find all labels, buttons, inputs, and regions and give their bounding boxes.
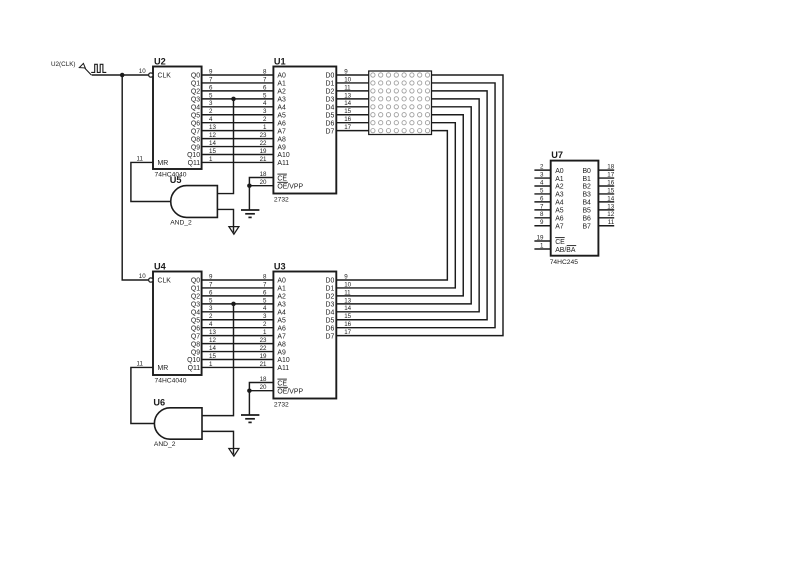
svg-text:2732: 2732 xyxy=(274,402,289,409)
wire Q3 to A3 (U2-U1) xyxy=(202,98,274,100)
wire matrix row 0 to U3 D7 xyxy=(336,75,503,336)
svg-text:13: 13 xyxy=(344,297,351,304)
svg-text:8: 8 xyxy=(263,273,267,280)
wire Q5 to A5 (U4-U3) xyxy=(202,319,274,321)
svg-text:7: 7 xyxy=(263,281,267,288)
svg-text:U6: U6 xyxy=(153,397,165,407)
wire U7 B1 stub xyxy=(598,177,614,179)
svg-text:U5: U5 xyxy=(170,175,182,185)
wire Q2 to A2 (U4-U3) xyxy=(202,295,274,297)
svg-text:B3: B3 xyxy=(582,192,591,199)
svg-text:AND_2: AND_2 xyxy=(154,441,176,448)
svg-text:Q10: Q10 xyxy=(187,152,200,159)
wire U1 D5 to matrix row 5 xyxy=(336,114,368,116)
wire Q0 to A0 (U4-U3) xyxy=(202,279,274,281)
svg-text:B7: B7 xyxy=(582,223,591,230)
svg-text:13: 13 xyxy=(209,329,216,336)
wire Q0 to A0 (U2-U1) xyxy=(202,74,274,76)
junction CLK node xyxy=(120,73,125,78)
svg-text:6: 6 xyxy=(540,195,544,202)
svg-text:4: 4 xyxy=(209,321,213,328)
EPROM U3 2732 xyxy=(273,261,336,408)
svg-text:OE/VPP: OE/VPP xyxy=(277,389,303,396)
svg-text:3: 3 xyxy=(209,100,213,107)
svg-text:9: 9 xyxy=(540,219,544,226)
wire U1 D3 to matrix row 3 xyxy=(336,98,368,100)
wire CLK net to U2 xyxy=(92,74,149,76)
svg-text:11: 11 xyxy=(608,219,615,226)
wire U1 CE pin 18 xyxy=(249,178,273,186)
svg-text:AND_2: AND_2 xyxy=(170,219,192,226)
svg-text:U1: U1 xyxy=(274,56,286,66)
wire U1 D2 to matrix row 2 xyxy=(336,90,368,92)
svg-text:A2: A2 xyxy=(277,89,286,96)
svg-text:OE/VPP: OE/VPP xyxy=(277,184,303,191)
svg-text:18: 18 xyxy=(607,164,614,171)
svg-text:2: 2 xyxy=(540,164,544,171)
svg-text:A10: A10 xyxy=(277,357,289,364)
svg-text:7: 7 xyxy=(263,76,267,83)
svg-text:CE: CE xyxy=(277,380,287,387)
wire CLK net down to U4 xyxy=(122,75,148,280)
svg-text:D2: D2 xyxy=(325,89,334,96)
svg-text:Q9: Q9 xyxy=(191,349,200,356)
svg-text:Q6: Q6 xyxy=(191,325,200,332)
svg-text:D6: D6 xyxy=(325,325,334,332)
wire U7 B0 stub xyxy=(598,169,614,171)
svg-text:Q7: Q7 xyxy=(191,333,200,340)
svg-text:16: 16 xyxy=(344,321,351,328)
svg-text:A0: A0 xyxy=(555,168,564,175)
svg-text:74HC245: 74HC245 xyxy=(550,259,579,266)
svg-text:16: 16 xyxy=(344,116,351,123)
input port U2(CLK) xyxy=(51,61,106,75)
svg-text:U2: U2 xyxy=(154,56,166,66)
wire matrix row 4 to U3 D3 xyxy=(336,107,471,304)
svg-text:Q11: Q11 xyxy=(188,160,201,167)
wire Q4 to A4 (U4-U3) xyxy=(202,311,274,313)
svg-text:10: 10 xyxy=(139,273,146,280)
svg-text:AB/BA: AB/BA xyxy=(555,247,576,254)
svg-text:13: 13 xyxy=(607,203,614,210)
ground digital U5 xyxy=(229,227,239,235)
svg-text:B5: B5 xyxy=(582,208,591,215)
svg-text:Q4: Q4 xyxy=(191,105,200,112)
svg-text:8: 8 xyxy=(540,211,544,218)
svg-text:7: 7 xyxy=(209,281,213,288)
svg-text:18: 18 xyxy=(260,171,267,178)
svg-text:5: 5 xyxy=(263,92,267,99)
wire U1 D6 to matrix row 6 xyxy=(336,122,368,124)
svg-text:4: 4 xyxy=(540,179,544,186)
svg-text:5: 5 xyxy=(209,92,213,99)
wire Q6 to A6 (U2-U1) xyxy=(202,122,274,124)
wire Q10 to A10 (U4-U3) xyxy=(202,359,274,361)
svg-text:Q6: Q6 xyxy=(191,120,200,127)
wire U7 A3 stub xyxy=(534,193,550,195)
wire Q8 to A8 (U2-U1) xyxy=(202,138,274,140)
svg-text:CLK: CLK xyxy=(158,73,172,80)
svg-text:Q7: Q7 xyxy=(191,128,200,135)
svg-text:9: 9 xyxy=(344,273,348,280)
svg-text:14: 14 xyxy=(209,345,216,352)
wire matrix row 1 to U3 D6 xyxy=(336,83,495,328)
svg-text:3: 3 xyxy=(263,108,267,115)
svg-text:2: 2 xyxy=(209,108,213,115)
svg-text:MR: MR xyxy=(158,365,169,372)
AND gate U5 AND_2 xyxy=(170,175,218,226)
svg-text:Q1: Q1 xyxy=(191,286,200,293)
svg-text:1: 1 xyxy=(209,361,213,368)
svg-text:1: 1 xyxy=(209,156,213,163)
wire matrix row 3 to U3 D4 xyxy=(336,99,479,312)
svg-text:A1: A1 xyxy=(555,176,564,183)
wire Q2 to A2 (U2-U1) xyxy=(202,90,274,92)
svg-text:CLK: CLK xyxy=(158,278,172,285)
svg-text:17: 17 xyxy=(607,171,614,178)
svg-text:A7: A7 xyxy=(277,333,286,340)
wire U7 A1 stub xyxy=(534,177,550,179)
wire U7 A2 stub xyxy=(534,185,550,187)
svg-text:Q3: Q3 xyxy=(191,302,200,309)
svg-text:A4: A4 xyxy=(555,200,564,207)
svg-text:7: 7 xyxy=(540,203,544,210)
wire matrix row 7 to U3 D0 xyxy=(336,131,447,280)
svg-text:A2: A2 xyxy=(555,184,564,191)
wire U5 input A from Q3 node xyxy=(217,99,233,194)
svg-text:A6: A6 xyxy=(277,325,286,332)
svg-text:6: 6 xyxy=(263,289,267,296)
wire U1 D4 to matrix row 4 xyxy=(336,106,368,108)
svg-text:U3: U3 xyxy=(274,261,286,271)
svg-text:A5: A5 xyxy=(277,317,286,324)
svg-text:D4: D4 xyxy=(325,105,334,112)
wire Q6 to A6 (U4-U3) xyxy=(202,327,274,329)
svg-text:15: 15 xyxy=(344,108,351,115)
svg-text:22: 22 xyxy=(260,345,267,352)
wire U7 A7 stub xyxy=(534,225,550,227)
wire Q1 to A1 (U2-U1) xyxy=(202,82,274,84)
svg-text:U7: U7 xyxy=(551,150,563,160)
svg-text:23: 23 xyxy=(260,132,267,139)
svg-text:20: 20 xyxy=(260,384,267,391)
svg-text:A4: A4 xyxy=(277,310,286,317)
svg-text:10: 10 xyxy=(344,281,351,288)
wire U6 output to MR xyxy=(131,367,155,423)
svg-text:Q10: Q10 xyxy=(187,357,200,364)
svg-text:CE: CE xyxy=(555,239,565,246)
wire U5 input B lead xyxy=(217,209,233,232)
svg-text:A7: A7 xyxy=(277,128,286,135)
svg-text:A11: A11 xyxy=(277,160,289,167)
svg-text:Q0: Q0 xyxy=(191,73,200,80)
svg-text:11: 11 xyxy=(344,84,351,91)
junction U1 OE node xyxy=(247,183,252,188)
svg-text:21: 21 xyxy=(260,361,267,368)
svg-text:1: 1 xyxy=(540,242,544,249)
svg-text:A1: A1 xyxy=(277,81,286,88)
wire Q10 to A10 (U2-U1) xyxy=(202,154,274,156)
svg-text:B1: B1 xyxy=(582,176,591,183)
wire U7 A4 stub xyxy=(534,201,550,203)
svg-text:Q8: Q8 xyxy=(191,341,200,348)
svg-text:13: 13 xyxy=(344,92,351,99)
svg-text:A8: A8 xyxy=(277,341,286,348)
svg-text:A6: A6 xyxy=(555,216,564,223)
svg-text:3: 3 xyxy=(540,171,544,178)
svg-text:15: 15 xyxy=(209,353,216,360)
svg-text:21: 21 xyxy=(260,156,267,163)
wire matrix row 2 to U3 D5 xyxy=(336,91,487,320)
wire U3 OE/VPP pin 20 xyxy=(249,390,273,392)
svg-text:5: 5 xyxy=(540,187,544,194)
svg-text:A3: A3 xyxy=(555,192,564,199)
svg-text:11: 11 xyxy=(137,156,144,163)
wire U6 input A from Q3 node xyxy=(202,304,234,416)
svg-text:10: 10 xyxy=(344,76,351,83)
svg-text:Q3: Q3 xyxy=(191,97,200,104)
svg-text:6: 6 xyxy=(209,84,213,91)
svg-text:D1: D1 xyxy=(325,286,334,293)
svg-text:23: 23 xyxy=(260,337,267,344)
svg-text:6: 6 xyxy=(209,289,213,296)
svg-text:10: 10 xyxy=(139,68,146,75)
svg-text:Q1: Q1 xyxy=(191,81,200,88)
svg-text:B0: B0 xyxy=(582,168,591,175)
svg-text:U4: U4 xyxy=(154,261,167,271)
svg-text:B2: B2 xyxy=(582,184,591,191)
svg-text:2: 2 xyxy=(209,313,213,320)
svg-text:14: 14 xyxy=(209,140,216,147)
svg-text:4: 4 xyxy=(263,305,267,312)
svg-text:D7: D7 xyxy=(325,333,334,340)
wire U1 D1 to matrix row 1 xyxy=(336,82,368,84)
svg-text:12: 12 xyxy=(607,211,614,218)
wire U7 B7 stub xyxy=(598,225,614,227)
svg-text:Q5: Q5 xyxy=(191,112,200,119)
svg-text:19: 19 xyxy=(260,148,267,155)
ground digital U6 xyxy=(229,449,239,457)
wire Q9 to A9 (U4-U3) xyxy=(202,351,274,353)
junction U3 OE node xyxy=(247,388,252,393)
buffer U7 74HC245 xyxy=(550,150,599,266)
svg-text:Q8: Q8 xyxy=(191,136,200,143)
svg-text:14: 14 xyxy=(344,100,351,107)
svg-text:B4: B4 xyxy=(582,200,591,207)
svg-text:D3: D3 xyxy=(325,97,334,104)
wire U3 ground lead xyxy=(248,391,250,415)
svg-text:9: 9 xyxy=(344,68,348,75)
svg-text:9: 9 xyxy=(209,273,213,280)
wire Q8 to A8 (U4-U3) xyxy=(202,343,274,345)
svg-text:A1: A1 xyxy=(277,286,286,293)
wire Q11 to A11 (U4-U3) xyxy=(202,366,274,368)
svg-text:15: 15 xyxy=(209,148,216,155)
wire U7 B5 stub xyxy=(598,209,614,211)
wire Q1 to A1 (U4-U3) xyxy=(202,287,274,289)
svg-text:Q11: Q11 xyxy=(188,365,201,372)
EPROM U1 2732 xyxy=(273,56,336,203)
svg-text:13: 13 xyxy=(209,124,216,131)
svg-text:2732: 2732 xyxy=(274,197,289,204)
wire U7 A5 stub xyxy=(534,209,550,211)
wire Q4 to A4 (U2-U1) xyxy=(202,106,274,108)
svg-text:A3: A3 xyxy=(277,302,286,309)
svg-text:MR: MR xyxy=(158,160,169,167)
svg-text:8: 8 xyxy=(263,68,267,75)
svg-text:A9: A9 xyxy=(277,144,286,151)
wire Q7 to A7 (U4-U3) xyxy=(202,335,274,337)
svg-text:B6: B6 xyxy=(582,216,591,223)
wire Q3 to A3 (U4-U3) xyxy=(202,303,274,305)
wire U6 input B lead xyxy=(202,431,234,454)
svg-text:5: 5 xyxy=(263,297,267,304)
wire Q7 to A7 (U2-U1) xyxy=(202,130,274,132)
svg-text:12: 12 xyxy=(209,337,216,344)
svg-text:11: 11 xyxy=(137,361,144,368)
wire Q11 to A11 (U2-U1) xyxy=(202,161,274,163)
wire U1 ground lead xyxy=(248,186,250,210)
svg-text:19: 19 xyxy=(537,234,544,241)
wire U7 AB/BA stub xyxy=(534,248,550,250)
svg-text:1: 1 xyxy=(263,329,267,336)
svg-text:A0: A0 xyxy=(277,278,286,285)
svg-text:6: 6 xyxy=(263,84,267,91)
svg-text:U2(CLK): U2(CLK) xyxy=(51,61,76,68)
counter U4 74HC4040 xyxy=(149,261,202,384)
svg-text:A0: A0 xyxy=(277,73,286,80)
svg-text:D4: D4 xyxy=(325,310,334,317)
svg-text:Q4: Q4 xyxy=(191,310,200,317)
svg-text:A6: A6 xyxy=(277,120,286,127)
svg-text:D2: D2 xyxy=(325,294,334,301)
wire U1 D7 to matrix row 7 xyxy=(336,130,368,132)
svg-text:D5: D5 xyxy=(325,317,334,324)
wire U1 D0 to matrix row 0 xyxy=(336,74,368,76)
svg-text:17: 17 xyxy=(344,329,351,336)
svg-text:22: 22 xyxy=(260,140,267,147)
wire U3 CE pin 18 xyxy=(249,383,273,391)
svg-text:14: 14 xyxy=(344,305,351,312)
counter U2 74HC4040 xyxy=(149,56,202,178)
wire U7 A0 stub xyxy=(534,169,550,171)
svg-text:1: 1 xyxy=(263,124,267,131)
svg-text:2: 2 xyxy=(263,321,267,328)
wire matrix row 6 to U3 D1 xyxy=(336,123,455,288)
junction Q3 node (U4-U3) xyxy=(231,302,236,307)
svg-text:9: 9 xyxy=(209,68,213,75)
svg-text:A4: A4 xyxy=(277,105,286,112)
svg-text:11: 11 xyxy=(344,289,351,296)
svg-text:A10: A10 xyxy=(277,152,289,159)
LED matrix display 8x8 xyxy=(369,71,432,135)
svg-text:A9: A9 xyxy=(277,349,286,356)
svg-text:CE: CE xyxy=(277,175,287,182)
svg-text:A5: A5 xyxy=(277,112,286,119)
junction Q3 node (U2-U1) xyxy=(231,97,236,102)
svg-text:17: 17 xyxy=(344,124,351,131)
svg-text:D3: D3 xyxy=(325,302,334,309)
svg-text:Q2: Q2 xyxy=(191,294,200,301)
svg-text:D0: D0 xyxy=(325,73,334,80)
wire U1 OE/VPP pin 20 xyxy=(249,185,273,187)
svg-text:A5: A5 xyxy=(555,208,564,215)
svg-text:14: 14 xyxy=(607,195,614,202)
wire Q5 to A5 (U2-U1) xyxy=(202,114,274,116)
svg-text:A11: A11 xyxy=(277,365,289,372)
AND gate U6 AND_2 xyxy=(153,397,202,448)
svg-text:7: 7 xyxy=(209,76,213,83)
svg-text:D7: D7 xyxy=(325,128,334,135)
svg-text:4: 4 xyxy=(263,100,267,107)
wire U7 B2 stub xyxy=(598,185,614,187)
svg-text:74HC4040: 74HC4040 xyxy=(155,377,187,384)
svg-text:Q0: Q0 xyxy=(191,278,200,285)
svg-text:5: 5 xyxy=(209,297,213,304)
svg-text:3: 3 xyxy=(209,305,213,312)
svg-text:Q5: Q5 xyxy=(191,317,200,324)
svg-text:A7: A7 xyxy=(555,223,564,230)
wire Q9 to A9 (U2-U1) xyxy=(202,146,274,148)
svg-text:A8: A8 xyxy=(277,136,286,143)
svg-text:3: 3 xyxy=(263,313,267,320)
svg-text:18: 18 xyxy=(260,376,267,383)
wire U7 A6 stub xyxy=(534,217,550,219)
svg-text:D0: D0 xyxy=(325,278,334,285)
wire U7 B6 stub xyxy=(598,217,614,219)
svg-text:15: 15 xyxy=(344,313,351,320)
svg-text:16: 16 xyxy=(607,179,614,186)
wire U7 CE stub xyxy=(534,240,550,242)
svg-text:19: 19 xyxy=(260,353,267,360)
svg-text:D5: D5 xyxy=(325,112,334,119)
ground U1 xyxy=(241,210,259,217)
svg-text:4: 4 xyxy=(209,116,213,123)
svg-text:Q9: Q9 xyxy=(191,144,200,151)
wire U5 output to MR xyxy=(131,162,171,201)
wire U7 B3 stub xyxy=(598,193,614,195)
svg-text:15: 15 xyxy=(607,187,614,194)
wire matrix row 5 to U3 D2 xyxy=(336,115,463,296)
svg-text:2: 2 xyxy=(263,116,267,123)
svg-text:D1: D1 xyxy=(325,81,334,88)
svg-text:Q2: Q2 xyxy=(191,89,200,96)
svg-text:A2: A2 xyxy=(277,294,286,301)
svg-text:A3: A3 xyxy=(277,97,286,104)
ground U3 xyxy=(241,415,259,422)
wire U7 B4 stub xyxy=(598,201,614,203)
svg-text:D6: D6 xyxy=(325,120,334,127)
svg-text:20: 20 xyxy=(260,179,267,186)
svg-text:12: 12 xyxy=(209,132,216,139)
